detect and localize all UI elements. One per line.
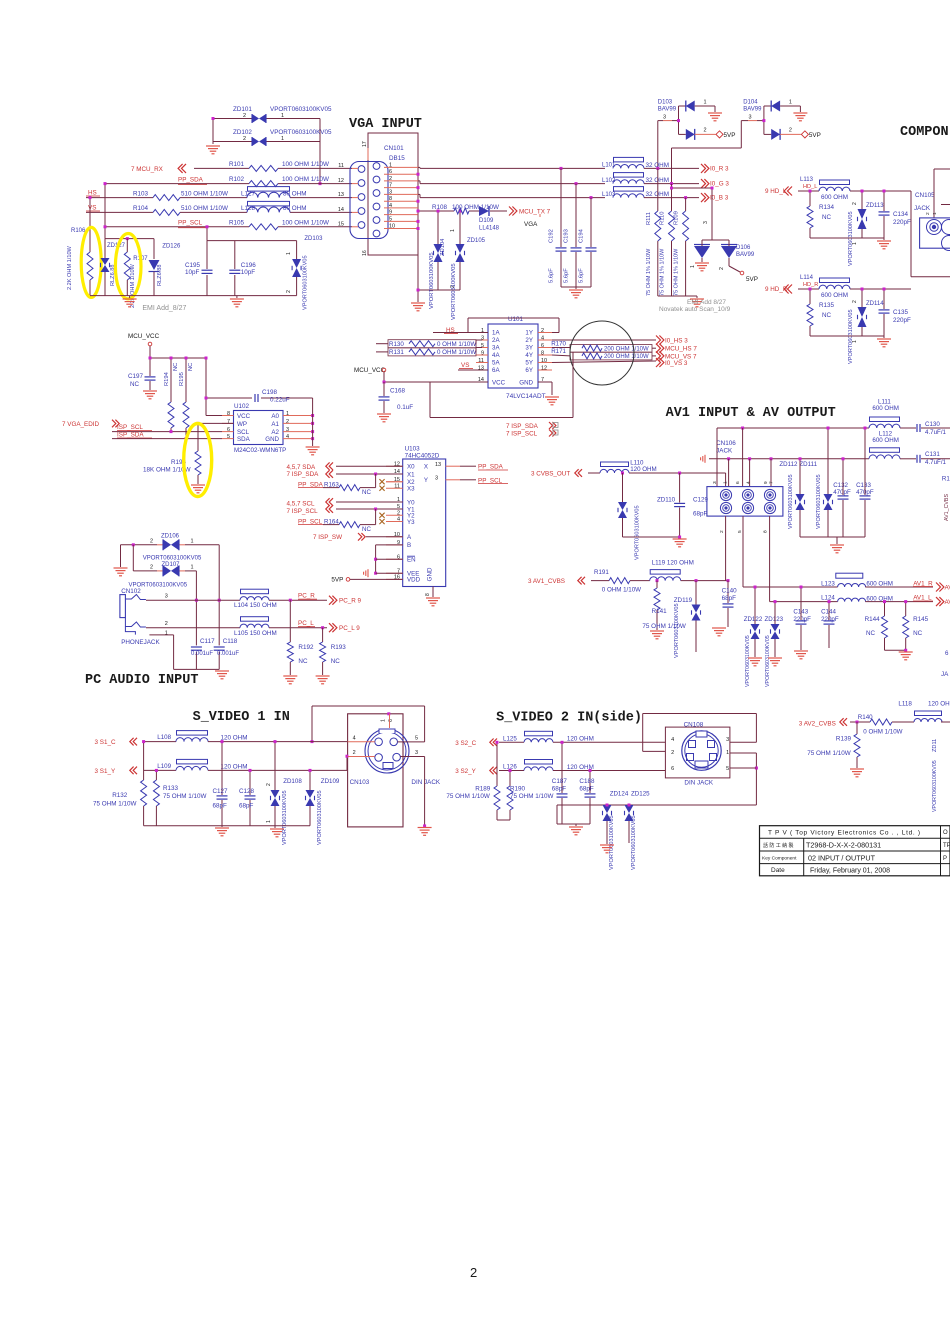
svg-text:ZD108: ZD108 [283, 778, 302, 785]
svg-text:C168: C168 [390, 388, 406, 395]
svg-text:C131: C131 [925, 451, 940, 458]
svg-text:2: 2 [266, 783, 272, 786]
svg-text:Key Component: Key Component [762, 856, 797, 862]
svg-text:C134: C134 [893, 211, 909, 218]
svg-text:O: O [943, 830, 948, 836]
svg-text:0 OHM 1/10W: 0 OHM 1/10W [437, 341, 476, 348]
svg-text:4: 4 [389, 203, 392, 209]
svg-text:5: 5 [481, 343, 484, 349]
svg-text:U101: U101 [508, 316, 524, 323]
svg-text:7: 7 [389, 183, 392, 189]
svg-text:VPORT0603100KV05: VPORT0603100KV05 [282, 790, 288, 845]
svg-text:R141: R141 [652, 608, 668, 615]
svg-text:68pF: 68pF [239, 803, 254, 810]
svg-text:DB15: DB15 [389, 155, 405, 162]
svg-text:VPORT0603100KV05: VPORT0603100KV05 [788, 474, 794, 529]
svg-text:4: 4 [353, 736, 356, 742]
svg-text:4Y: 4Y [525, 352, 533, 359]
svg-text:VGA: VGA [524, 221, 538, 228]
svg-text:1: 1 [281, 113, 284, 119]
svg-text:2A: 2A [492, 337, 500, 344]
svg-text:13: 13 [338, 192, 344, 198]
svg-text:VGA INPUT: VGA INPUT [349, 117, 422, 132]
svg-text:2: 2 [286, 290, 292, 293]
svg-text:100 OHM 1/10W: 100 OHM 1/10W [282, 220, 329, 227]
svg-text:ZD110: ZD110 [657, 497, 676, 504]
svg-text:BAV99: BAV99 [658, 107, 677, 113]
svg-text:X1: X1 [407, 471, 415, 478]
svg-text:5Y: 5Y [525, 360, 533, 367]
svg-text:VPORT0603100KV05: VPORT0603100KV05 [317, 790, 323, 845]
svg-text:RLZ6.88: RLZ6.88 [157, 265, 163, 286]
svg-text:0 OHM 1/10W: 0 OHM 1/10W [437, 349, 476, 356]
svg-text:1: 1 [481, 328, 484, 334]
svg-text:600 OHM: 600 OHM [872, 437, 898, 444]
svg-text:EMI Add_8/27: EMI Add_8/27 [142, 305, 186, 312]
svg-text:2: 2 [852, 202, 858, 205]
svg-text:4.7uF/1: 4.7uF/1 [925, 459, 947, 466]
svg-text:1: 1 [191, 565, 194, 571]
svg-text:PC_R: PC_R [298, 593, 315, 600]
svg-text:R105: R105 [229, 220, 245, 227]
svg-text:3Y: 3Y [525, 345, 533, 352]
svg-text:HD_L: HD_L [803, 184, 817, 190]
svg-text:Y: Y [424, 477, 428, 484]
svg-text:68pF: 68pF [552, 786, 567, 793]
svg-text:75 OHM 1/10W: 75 OHM 1/10W [510, 793, 553, 800]
svg-text:SCL: SCL [237, 429, 250, 436]
svg-text:PP_SCL: PP_SCL [178, 219, 203, 226]
svg-text:1: 1 [450, 229, 456, 232]
svg-text:5: 5 [737, 530, 743, 533]
svg-text:GND: GND [265, 436, 279, 443]
svg-text:11: 11 [478, 358, 484, 364]
svg-text:Date: Date [771, 867, 785, 874]
svg-text:L101: L101 [602, 163, 616, 169]
svg-text:T2968-D-X-X-2-080131: T2968-D-X-X-2-080131 [806, 841, 881, 850]
svg-text:220pF: 220pF [821, 616, 839, 623]
svg-text:BAV99: BAV99 [743, 107, 762, 113]
svg-text:NC: NC [173, 363, 179, 371]
svg-text:CN103: CN103 [350, 779, 370, 786]
svg-text:ISP_SCL: ISP_SCL [117, 424, 143, 431]
svg-text:3: 3 [749, 115, 752, 121]
svg-text:5.6pF: 5.6pF [579, 268, 585, 283]
svg-text:120 OHM: 120 OHM [630, 466, 656, 473]
svg-text:GND: GND [427, 567, 434, 581]
svg-text:9 HD_R: 9 HD_R [765, 286, 788, 293]
svg-text:R139: R139 [836, 736, 852, 743]
svg-text:R170: R170 [551, 341, 566, 348]
svg-text:4: 4 [671, 737, 674, 743]
svg-text:VCC: VCC [237, 413, 251, 420]
svg-text:ZD126: ZD126 [162, 244, 181, 250]
svg-text:ZD102: ZD102 [233, 129, 252, 136]
svg-text:3: 3 [481, 336, 484, 342]
svg-text:2: 2 [389, 176, 392, 182]
svg-text:470pF: 470pF [833, 489, 851, 496]
svg-text:10pF: 10pF [241, 269, 256, 276]
svg-text:74LVC14ADT: 74LVC14ADT [506, 393, 546, 400]
svg-text:C198: C198 [262, 389, 278, 396]
svg-text:L104 150 OHM: L104 150 OHM [234, 602, 277, 609]
svg-text:15: 15 [338, 221, 344, 227]
svg-text:VPORT0603100KV05: VPORT0603100KV05 [635, 505, 641, 560]
svg-text:600 OHM: 600 OHM [872, 405, 898, 412]
svg-text:L105 150 OHM: L105 150 OHM [234, 630, 277, 637]
svg-text:13: 13 [478, 366, 484, 372]
svg-text:9: 9 [481, 351, 484, 357]
svg-text:7: 7 [227, 419, 230, 425]
svg-text:AV1 INPUT & AV OUTPUT: AV1 INPUT & AV OUTPUT [666, 406, 836, 421]
svg-text:D103: D103 [658, 100, 673, 106]
svg-text:2: 2 [353, 750, 356, 756]
svg-text:5A: 5A [492, 360, 500, 367]
svg-text:VPORT0603100KV05: VPORT0603100KV05 [816, 474, 822, 529]
svg-text:1: 1 [723, 481, 729, 484]
svg-text:L109: L109 [157, 763, 171, 770]
svg-text:2: 2 [165, 621, 168, 627]
svg-text:C118: C118 [223, 638, 238, 645]
svg-text:CN105: CN105 [915, 192, 935, 199]
svg-text:R101: R101 [229, 161, 245, 168]
svg-text:3: 3 [703, 221, 709, 224]
svg-text:R131: R131 [389, 349, 404, 356]
svg-text:3: 3 [712, 481, 718, 484]
svg-text:D104: D104 [743, 100, 758, 106]
svg-text:1: 1 [281, 136, 284, 142]
svg-text:13: 13 [435, 462, 441, 468]
svg-text:L119 120 OHM: L119 120 OHM [652, 560, 694, 567]
svg-text:5VP: 5VP [724, 132, 736, 139]
svg-text:2: 2 [852, 300, 858, 303]
svg-text:10: 10 [389, 224, 395, 230]
svg-text:HD_R: HD_R [803, 282, 818, 288]
svg-text:R171: R171 [551, 348, 566, 355]
svg-text:VPORT0603100KV05: VPORT0603100KV05 [848, 309, 854, 364]
svg-text:8: 8 [763, 530, 769, 533]
svg-text:BAV99: BAV99 [736, 252, 755, 258]
svg-text:1: 1 [704, 100, 707, 106]
svg-text:VPORT0603100KV05: VPORT0603100KV05 [631, 815, 637, 870]
svg-text:L125: L125 [503, 735, 517, 742]
svg-text:R130: R130 [389, 341, 404, 348]
svg-text:X: X [424, 464, 428, 471]
svg-text:5.6pF: 5.6pF [549, 268, 555, 283]
svg-text:A1: A1 [271, 421, 279, 428]
svg-text:75 OHM 1/10W: 75 OHM 1/10W [807, 750, 850, 757]
svg-text:2: 2 [789, 128, 792, 134]
svg-text:1A: 1A [492, 330, 500, 337]
svg-text:PHONEJACK: PHONEJACK [121, 639, 160, 646]
svg-text:9 HD_L: 9 HD_L [765, 188, 787, 195]
svg-text:MCU_HS 7: MCU_HS 7 [665, 346, 697, 353]
svg-text:VPORT0603100KV05: VPORT0603100KV05 [674, 603, 680, 658]
svg-text:T P V ( Top Victory E: T P V ( Top Victory Electronics Co . , L… [768, 830, 921, 837]
svg-text:I0_R 3: I0_R 3 [710, 165, 729, 172]
svg-text:1: 1 [286, 252, 292, 255]
svg-text:I0_HS 3: I0_HS 3 [665, 338, 688, 345]
svg-text:510 OHM 1/10W: 510 OHM 1/10W [181, 205, 228, 212]
svg-text:NC: NC [362, 489, 371, 496]
svg-text:NC: NC [331, 658, 341, 665]
svg-text:X3: X3 [407, 486, 415, 493]
svg-text:B: B [407, 542, 411, 549]
svg-text:JACK: JACK [716, 448, 733, 455]
svg-text:3 AV2_CVBS: 3 AV2_CVBS [799, 721, 836, 728]
svg-text:TP: TP [943, 843, 950, 849]
svg-text:R145: R145 [913, 616, 929, 623]
svg-text:200 OHM 1/10W: 200 OHM 1/10W [604, 354, 649, 360]
svg-text:ZD105: ZD105 [467, 238, 486, 244]
svg-text:12: 12 [541, 366, 547, 372]
svg-text:MCU_VCC: MCU_VCC [354, 367, 386, 374]
svg-text:ZD11: ZD11 [932, 739, 938, 752]
svg-text:80 OHM: 80 OHM [283, 190, 306, 197]
svg-text:12: 12 [338, 178, 344, 184]
svg-text:CN101: CN101 [384, 145, 404, 152]
svg-text:0.22uF: 0.22uF [270, 397, 290, 404]
svg-text:ZD101: ZD101 [233, 106, 252, 113]
svg-text:PC_L 9: PC_L 9 [339, 625, 360, 632]
svg-text:MCU_TX 7: MCU_TX 7 [519, 209, 551, 216]
svg-text:1: 1 [690, 265, 696, 268]
svg-text:S_VIDEO 1 IN: S_VIDEO 1 IN [193, 710, 290, 725]
svg-text:2: 2 [150, 539, 153, 545]
svg-text:ISP_SDA: ISP_SDA [117, 432, 144, 439]
svg-text:16: 16 [362, 250, 368, 256]
svg-text:C193: C193 [564, 229, 570, 243]
svg-text:A2: A2 [271, 429, 279, 436]
svg-text:4,5,7 SCL: 4,5,7 SCL [287, 501, 316, 508]
svg-text:3 S1_C: 3 S1_C [95, 739, 116, 746]
svg-text:C197: C197 [128, 373, 144, 380]
svg-text:ZD125: ZD125 [631, 791, 650, 798]
svg-text:8: 8 [227, 411, 230, 417]
svg-text:C130: C130 [925, 421, 940, 428]
svg-text:ZD123: ZD123 [765, 616, 784, 623]
svg-text:VPORT0603100KV05: VPORT0603100KV05 [143, 556, 202, 562]
svg-text:7 ISP_SCL: 7 ISP_SCL [287, 508, 319, 515]
svg-text:7 VGA_EDID: 7 VGA_EDID [62, 421, 100, 428]
svg-text:L128: L128 [241, 205, 256, 212]
svg-text:R195: R195 [179, 372, 185, 386]
svg-text:3A: 3A [492, 345, 500, 352]
svg-text:R111: R111 [646, 212, 652, 225]
svg-text:220pF: 220pF [893, 219, 911, 226]
svg-text:VS: VS [461, 362, 469, 369]
svg-text:2: 2 [541, 328, 544, 334]
svg-text:MCU_VCC: MCU_VCC [128, 333, 160, 340]
svg-text:L113: L113 [800, 177, 814, 183]
svg-text:02 INPUT / OUTPUT: 02 INPUT / OUTPUT [808, 854, 876, 863]
svg-text:M24C02-WMN6TP: M24C02-WMN6TP [234, 447, 286, 454]
svg-text:VPORT0603100KV05: VPORT0603100KV05 [429, 252, 435, 309]
svg-text:2: 2 [286, 419, 289, 425]
svg-text:510 OHM 1/10W: 510 OHM 1/10W [181, 190, 228, 197]
svg-text:CN106: CN106 [716, 440, 736, 447]
svg-text:1: 1 [191, 539, 194, 545]
svg-text:14: 14 [338, 207, 344, 213]
svg-text:2: 2 [243, 136, 246, 142]
svg-text:1: 1 [165, 631, 168, 637]
svg-text:EN: EN [407, 557, 416, 564]
svg-text:0.001uF: 0.001uF [217, 651, 239, 657]
svg-text:X0: X0 [407, 464, 415, 471]
svg-text:U103: U103 [405, 446, 421, 453]
svg-text:2: 2 [150, 565, 153, 571]
svg-text:68pF: 68pF [693, 511, 708, 518]
svg-text:NC: NC [298, 658, 308, 665]
svg-text:C187: C187 [552, 778, 568, 785]
svg-text:C132: C132 [833, 482, 848, 489]
svg-text:ZD124: ZD124 [610, 791, 629, 798]
svg-text:75 OHM 1% 1/10W: 75 OHM 1% 1/10W [646, 248, 652, 296]
svg-text:3 S1_Y: 3 S1_Y [95, 768, 116, 775]
svg-text:VPORT0603100KV05: VPORT0603100KV05 [451, 263, 457, 320]
svg-text:VPORT0603100KV05: VPORT0603100KV05 [270, 106, 332, 113]
svg-text:DIN JACK: DIN JACK [411, 779, 440, 786]
svg-text:7 ISP_SDA: 7 ISP_SDA [506, 423, 539, 430]
svg-text:JA: JA [941, 671, 949, 678]
svg-text:I0_B 3: I0_B 3 [710, 195, 729, 202]
svg-text:C127: C127 [213, 788, 229, 795]
svg-text:R110: R110 [660, 212, 666, 225]
svg-text:2.2K OHM 1/10W: 2.2K OHM 1/10W [67, 245, 73, 290]
svg-text:L118: L118 [898, 701, 912, 708]
svg-text:0.001uF: 0.001uF [191, 651, 213, 657]
svg-text:VPORT0603100KV05: VPORT0603100KV05 [303, 255, 309, 310]
svg-text:C117: C117 [200, 638, 215, 645]
svg-text:8: 8 [541, 351, 544, 357]
svg-text:1: 1 [389, 162, 392, 168]
svg-text:68pF: 68pF [579, 786, 594, 793]
svg-text:R133: R133 [163, 785, 179, 792]
svg-text:L103: L103 [602, 192, 616, 198]
svg-text:PC AUDIO INPUT: PC AUDIO INPUT [85, 673, 198, 688]
svg-text:VCC: VCC [492, 380, 506, 387]
svg-text:4: 4 [286, 434, 289, 440]
svg-text:R109: R109 [674, 211, 680, 225]
svg-text:VPORT0603100KV05: VPORT0603100KV05 [932, 760, 938, 812]
svg-text:DIN JACK: DIN JACK [684, 780, 713, 787]
svg-text:120 OH: 120 OH [928, 701, 950, 708]
svg-text:R103: R103 [133, 190, 149, 197]
svg-text:ZD107: ZD107 [162, 562, 181, 568]
svg-text:120 OHM: 120 OHM [567, 736, 594, 743]
svg-text:VS: VS [88, 205, 96, 212]
svg-text:75 OHM 1/10W: 75 OHM 1/10W [93, 801, 136, 808]
svg-text:VDD: VDD [407, 577, 421, 584]
svg-text:3: 3 [726, 737, 729, 743]
svg-text:C133: C133 [856, 482, 871, 489]
svg-text:68pF: 68pF [213, 803, 228, 810]
svg-text:R190: R190 [510, 786, 526, 793]
svg-text:5VP: 5VP [809, 132, 821, 139]
svg-text:GND: GND [519, 380, 533, 387]
svg-text:L102: L102 [602, 178, 616, 184]
svg-text:220pF: 220pF [793, 616, 811, 623]
svg-text:ZD111: ZD111 [799, 461, 817, 468]
svg-text:75 OHM 1/10W: 75 OHM 1/10W [163, 793, 206, 800]
svg-text:NC: NC [188, 363, 194, 371]
svg-text:7 ISP_SCL: 7 ISP_SCL [506, 431, 538, 438]
svg-text:ZD114: ZD114 [866, 301, 884, 307]
svg-text:R132: R132 [112, 792, 128, 799]
svg-text:R106: R106 [71, 228, 86, 234]
svg-text:C128: C128 [239, 788, 255, 795]
svg-text:C135: C135 [893, 309, 909, 316]
svg-text:ZD119: ZD119 [674, 597, 693, 604]
svg-text:NC: NC [913, 630, 923, 637]
svg-text:R135: R135 [819, 302, 835, 309]
svg-text:Y3: Y3 [407, 519, 415, 526]
svg-text:2: 2 [470, 1265, 477, 1280]
svg-text:6: 6 [227, 427, 230, 433]
svg-text:100 OHM 1/10W: 100 OHM 1/10W [282, 161, 329, 168]
svg-text:74HC4052D: 74HC4052D [405, 453, 440, 460]
svg-text:1: 1 [789, 100, 792, 106]
svg-text:1: 1 [726, 750, 729, 756]
svg-text:5VP: 5VP [746, 276, 758, 283]
svg-text:NC: NC [362, 526, 371, 533]
svg-text:220pF: 220pF [893, 317, 911, 324]
svg-text:A0: A0 [271, 413, 279, 420]
svg-text:3: 3 [663, 115, 666, 121]
svg-text:3 CVBS_OUT: 3 CVBS_OUT [531, 471, 570, 478]
svg-text:R194: R194 [164, 371, 170, 386]
svg-text:600 OHM: 600 OHM [821, 194, 848, 201]
svg-text:1: 1 [286, 411, 289, 417]
svg-text:6A: 6A [492, 367, 500, 374]
svg-text:S_VIDEO 2 IN(side): S_VIDEO 2 IN(side) [496, 711, 642, 726]
svg-text:68pF: 68pF [722, 595, 737, 602]
svg-text:7: 7 [769, 481, 775, 484]
svg-text:CN108: CN108 [684, 722, 704, 729]
svg-text:4A: 4A [492, 352, 500, 359]
svg-text:9: 9 [763, 481, 769, 484]
svg-text:0 OHM 1/10W: 0 OHM 1/10W [863, 729, 902, 736]
svg-text:C194: C194 [579, 228, 585, 243]
svg-text:100 OHM 1/10W: 100 OHM 1/10W [452, 204, 499, 211]
svg-text:80 OHM: 80 OHM [283, 205, 306, 212]
svg-text:SDA: SDA [237, 436, 251, 443]
svg-text:8: 8 [425, 593, 431, 596]
svg-text:5: 5 [389, 216, 392, 222]
svg-text:2: 2 [719, 267, 725, 270]
svg-text:R144: R144 [865, 616, 881, 623]
svg-text:LL4148: LL4148 [479, 226, 500, 232]
svg-text:VPORT0603100KV05: VPORT0603100KV05 [848, 211, 854, 266]
svg-text:話 防 工 納 製: 話 防 工 納 製 [763, 842, 794, 849]
svg-text:17: 17 [362, 141, 368, 147]
svg-text:8: 8 [389, 196, 392, 202]
svg-text:9: 9 [389, 210, 392, 216]
svg-text:6: 6 [671, 766, 674, 772]
svg-text:5VP: 5VP [331, 577, 343, 584]
svg-text:L127: L127 [241, 190, 256, 197]
svg-text:3: 3 [389, 189, 392, 195]
svg-text:NC: NC [866, 630, 876, 637]
svg-text:6: 6 [389, 169, 392, 175]
svg-text:JACK: JACK [914, 205, 931, 212]
svg-text:1: 1 [852, 340, 858, 343]
svg-text:VPORT0603100KV05: VPORT0603100KV05 [270, 129, 332, 136]
svg-text:10: 10 [541, 358, 547, 364]
svg-text:2Y: 2Y [525, 337, 533, 344]
svg-text:32 OHM: 32 OHM [646, 177, 669, 184]
svg-text:1: 1 [932, 212, 938, 215]
